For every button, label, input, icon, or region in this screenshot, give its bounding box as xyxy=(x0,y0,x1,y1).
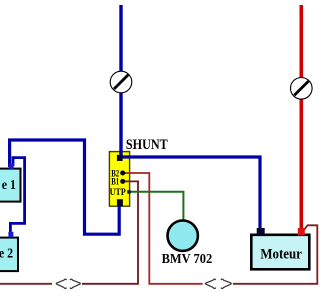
battery 1 xyxy=(0,169,21,202)
shunt top terminal xyxy=(117,155,123,161)
fuse F1 (blue line) xyxy=(110,71,132,93)
UTP pin terminal xyxy=(127,190,130,193)
wire: blue rail battery1 top to shunt bottom terminal xyxy=(10,140,120,234)
wire: blue link battery1 terminal to battery2 terminal xyxy=(10,158,24,234)
connector 1 left glyph xyxy=(56,279,66,288)
wire: thin red branch from motor terminal to right bottom rail xyxy=(233,225,317,283)
svg-text:e 2: e 2 xyxy=(0,245,13,261)
wire: red B1 circuit to left bottom rail xyxy=(82,181,138,283)
svg-text:Moteur: Moteur xyxy=(260,247,301,263)
motor blue terminal xyxy=(257,228,265,236)
svg-text:SHUNT: SHUNT xyxy=(126,136,168,152)
connector 2 right glyph xyxy=(221,279,231,288)
motor xyxy=(251,235,309,269)
wire: blue from shunt top terminal to motor xyxy=(120,157,260,232)
motor red terminal xyxy=(298,228,305,236)
shunt R body xyxy=(109,152,129,207)
battery 2 xyxy=(0,238,18,272)
svg-text:BMV 702: BMV 702 xyxy=(162,250,213,266)
fuse F2 (red line) xyxy=(291,78,313,100)
battery 1 terminal xyxy=(9,164,14,169)
BMV 702 xyxy=(168,221,198,251)
wire: red main positive from top to motor terminal xyxy=(299,5,303,231)
connector 2 left glyph xyxy=(205,279,215,288)
svg-text:UTP: UTP xyxy=(110,186,127,197)
wire: red B2 circuit to right bottom rail xyxy=(123,173,203,284)
pin dot B1 xyxy=(120,179,125,184)
connector 1 right glyph xyxy=(70,279,80,288)
svg-text:e 1: e 1 xyxy=(2,176,16,192)
wire: main blue positive from top into shunt top terminal xyxy=(119,5,122,158)
battery 2 terminal xyxy=(8,232,13,238)
pin dot B2 xyxy=(120,171,125,176)
wire: green UTP to BMV xyxy=(128,192,183,220)
wire: left bottom rail to edge xyxy=(0,283,52,285)
shunt bottom terminal xyxy=(117,199,123,206)
